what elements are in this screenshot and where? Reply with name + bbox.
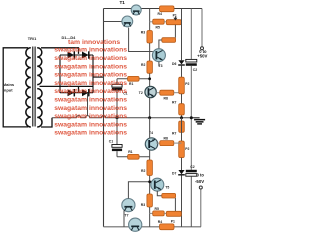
svg-text:P1: P1 xyxy=(173,13,177,17)
resistor R3b xyxy=(147,194,153,207)
svg-text:P2: P2 xyxy=(185,147,189,151)
junction dot T5 base node xyxy=(148,180,151,183)
ground symbol xyxy=(191,118,205,125)
transistor T7 lower xyxy=(129,218,142,231)
transformer secondary winding lower xyxy=(37,89,42,127)
capacitor C1b lower half xyxy=(112,118,122,157)
resistor R6b xyxy=(162,193,176,198)
resistor R7b lower xyxy=(179,121,185,132)
svg-text:R5: R5 xyxy=(155,207,159,211)
svg-text:R1: R1 xyxy=(128,150,132,154)
svg-text:R7: R7 xyxy=(172,132,176,136)
resistor R4 on top rail xyxy=(160,6,175,12)
svg-text:R7: R7 xyxy=(172,101,176,105)
resistor R4b on bottom rail xyxy=(160,224,175,230)
svg-text:T5: T5 xyxy=(165,185,169,189)
resistor R3 xyxy=(147,31,153,44)
svg-text:R4: R4 xyxy=(158,12,162,16)
wire column R5-R3 from rail xyxy=(149,9,151,31)
wire right column top xyxy=(181,9,183,61)
wire R7b to P2b xyxy=(181,118,183,141)
svg-text:R3: R3 xyxy=(141,31,145,35)
svg-text:T7: T7 xyxy=(125,214,129,218)
svg-text:P1: P1 xyxy=(171,220,175,224)
junction dot R1 row xyxy=(148,77,151,80)
wire center tap xyxy=(40,85,94,87)
wire R1b row xyxy=(117,156,150,158)
resistor R8 xyxy=(156,90,181,95)
wire bridge right side xyxy=(92,55,94,93)
wire bridge output to left rail xyxy=(93,76,104,78)
svg-text:-50V: -50V xyxy=(195,179,204,184)
wire D7 down to P1b row and bottom rail xyxy=(181,175,183,226)
resistor R1b xyxy=(128,154,140,159)
svg-text:C1: C1 xyxy=(109,140,113,144)
wire R3 bottom to T3 base node xyxy=(149,43,151,61)
svg-text:swagatam innovations: swagatam innovations xyxy=(54,105,127,112)
wire T1 emitter down and right to T3 base xyxy=(129,28,153,52)
transformer secondary winding upper xyxy=(37,48,42,85)
output terminal +50V xyxy=(201,9,204,50)
junction dot bus-R7 xyxy=(180,116,183,119)
resistor R8b xyxy=(156,141,181,146)
resistor R7 xyxy=(179,104,185,115)
potentiometer P1b xyxy=(166,211,181,216)
capacitor C2 column xyxy=(190,9,192,60)
wire minus line from bridge row2 to bus xyxy=(87,93,89,116)
svg-text:swagatam innovations: swagatam innovations xyxy=(54,47,127,54)
transistor T1 lower xyxy=(122,16,133,27)
svg-text:R1: R1 xyxy=(129,82,133,86)
svg-text:P2: P2 xyxy=(185,82,189,86)
diode D6 xyxy=(178,60,185,65)
wire mains loop xyxy=(3,48,28,127)
transformer core xyxy=(32,47,34,127)
resistor R5 xyxy=(150,19,167,24)
resistor R2b xyxy=(147,160,153,176)
wire bridge row 2 xyxy=(60,92,93,94)
svg-text:+50V: +50V xyxy=(197,54,207,59)
svg-text:swagatam innovations: swagatam innovations xyxy=(54,63,127,70)
svg-text:swagatam innovations: swagatam innovations xyxy=(54,55,127,62)
potentiometer P2b xyxy=(179,141,185,158)
svg-text:swagatam innovations: swagatam innovations xyxy=(54,72,127,79)
wire P2b to D7 xyxy=(181,158,183,170)
junction dot bus-C1 xyxy=(116,116,119,119)
svg-text:R5: R5 xyxy=(156,25,160,29)
wire T5 emitter to R6b xyxy=(157,191,162,196)
wire R2 bottom to T2 xyxy=(149,73,151,86)
svg-text:0 to: 0 to xyxy=(197,172,205,177)
resistor R2 xyxy=(147,61,153,73)
diode D1 xyxy=(68,51,75,58)
wire bridge left side xyxy=(59,55,61,93)
svg-text:R8: R8 xyxy=(164,136,168,140)
wire T7 lead up to T5 base row xyxy=(128,182,151,199)
diode D3 xyxy=(68,89,75,96)
transformer primary winding xyxy=(26,48,31,127)
svg-text:T1: T1 xyxy=(120,0,126,5)
wire T4 bottom to R2b xyxy=(149,150,151,160)
svg-text:C2: C2 xyxy=(193,68,197,72)
resistor R6 xyxy=(162,38,176,43)
potentiometer P2 xyxy=(179,77,185,94)
svg-text:D6: D6 xyxy=(172,62,176,66)
wire D6 to P2 xyxy=(181,66,183,78)
wire P2 to R7 xyxy=(181,94,183,118)
svg-text:swagatam innovations: swagatam innovations xyxy=(54,88,127,95)
svg-text:Input: Input xyxy=(3,87,13,92)
potentiometer P1 wiper arrow xyxy=(174,17,177,20)
svg-text:swagatam innovations: swagatam innovations xyxy=(54,113,127,120)
transistor T2 inline xyxy=(145,86,156,97)
svg-text:tam innovations: tam innovations xyxy=(68,39,120,46)
wire R3b bottom to rail xyxy=(149,207,151,227)
svg-text:R2: R2 xyxy=(141,63,145,67)
svg-text:T2: T2 xyxy=(139,91,143,95)
wire secondary top to bridge xyxy=(41,48,79,54)
diode D2 xyxy=(82,51,89,58)
svg-text:R8: R8 xyxy=(164,97,168,101)
svg-text:R3: R3 xyxy=(141,203,145,207)
diode D4 xyxy=(82,89,89,96)
svg-text:swagatam innovations: swagatam innovations xyxy=(54,130,127,137)
svg-text:D7: D7 xyxy=(172,172,176,176)
wire top rail xyxy=(104,8,203,10)
resistor R1 xyxy=(128,76,140,81)
wire bottom rail xyxy=(104,226,202,228)
wire bridge row 1 xyxy=(60,54,93,56)
potentiometer P1 xyxy=(166,20,181,25)
transistor T1 upper xyxy=(131,5,141,15)
wire T7 stub to rail xyxy=(123,211,125,227)
wire R2b to base node xyxy=(149,176,151,195)
watermark swagatam innovations xyxy=(54,39,127,137)
wire R6 left to T3 collector xyxy=(159,40,162,49)
transistor T7 upper xyxy=(122,199,135,212)
wire T3 emitter stub xyxy=(158,62,160,67)
wire P1b wiper up to R6b xyxy=(174,198,176,211)
capacitor C2 xyxy=(186,59,197,169)
wire T4 top to bus xyxy=(149,118,151,138)
capacitor C1 top half xyxy=(112,79,122,118)
wire T1 collector tee to left rail xyxy=(104,21,122,23)
wire 0V bus with hops xyxy=(52,116,191,118)
wire left rail xyxy=(103,9,105,227)
transistor T3 xyxy=(152,49,165,62)
transistor T5 xyxy=(151,178,164,191)
transistor T4 inline xyxy=(145,138,157,150)
wire secondary bottom xyxy=(41,118,52,127)
svg-text:C2: C2 xyxy=(190,165,194,169)
capacitor C3 xyxy=(186,170,197,227)
svg-text:TR/1: TR/1 xyxy=(28,36,37,41)
wire P1 wiper down to R6 xyxy=(174,25,176,38)
junction dot bus-ground xyxy=(190,116,193,119)
junction dot bus-T2 xyxy=(148,116,151,119)
wire R1 row xyxy=(117,78,150,80)
svg-text:R4: R4 xyxy=(158,220,162,224)
svg-text:R2: R2 xyxy=(141,169,145,173)
output terminal -50V xyxy=(199,186,202,227)
resistor R5b xyxy=(150,211,167,216)
svg-text:swagatam innovations: swagatam innovations xyxy=(54,80,127,87)
wire T2 emitter to bus xyxy=(149,98,151,118)
diode D7 xyxy=(178,170,185,175)
svg-text:swagatam innovations: swagatam innovations xyxy=(54,121,127,128)
svg-text:swagatam innovations: swagatam innovations xyxy=(54,97,127,104)
